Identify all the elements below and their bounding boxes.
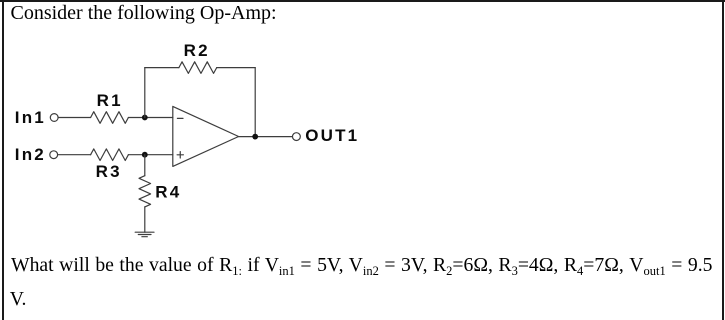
node A junction dot (R1 / feedback) xyxy=(142,115,148,121)
resistor R4 xyxy=(139,176,151,207)
wire R4 top lead xyxy=(144,155,146,176)
wire feedback top right segment xyxy=(217,67,256,69)
border frame top xyxy=(0,0,725,2)
ground xyxy=(135,232,154,237)
terminal In1 xyxy=(50,114,58,122)
wire feedback left vertical xyxy=(144,68,146,118)
question paragraph line 2 xyxy=(10,288,27,311)
op-amp minus pin label xyxy=(177,117,183,119)
border frame left xyxy=(2,0,4,320)
resistor R2 xyxy=(179,62,217,74)
title text xyxy=(11,2,277,25)
wire In2 lead xyxy=(58,154,90,156)
svg-text:In1: In1 xyxy=(15,108,46,127)
op-amp U1 xyxy=(173,106,239,166)
op-amp plus pin label xyxy=(177,152,183,158)
wire output xyxy=(239,136,293,138)
svg-text:R3: R3 xyxy=(96,162,122,181)
resistor R1 xyxy=(91,112,129,124)
wire R4 bottom lead xyxy=(144,207,146,232)
wire feedback right vertical xyxy=(254,68,256,137)
border frame right xyxy=(722,0,725,320)
question paragraph line 1 xyxy=(11,254,713,277)
svg-text:R1: R1 xyxy=(97,91,123,110)
wire feedback top left segment xyxy=(145,67,179,69)
svg-text:In2: In2 xyxy=(15,145,46,164)
wire R3 to non-inverting input xyxy=(128,154,172,156)
node C junction dot (output / feedback) xyxy=(252,134,258,140)
wire In1 lead xyxy=(59,117,91,119)
svg-text:OUT1: OUT1 xyxy=(305,126,359,145)
resistor R3 xyxy=(91,149,129,161)
terminal In2 xyxy=(50,151,58,159)
svg-text:R4: R4 xyxy=(155,183,181,202)
svg-text:R2: R2 xyxy=(184,41,210,60)
wire R1 to inverting input xyxy=(128,117,172,119)
node B junction dot (R3 / R4) xyxy=(142,152,148,158)
terminal OUT1 xyxy=(293,133,301,141)
